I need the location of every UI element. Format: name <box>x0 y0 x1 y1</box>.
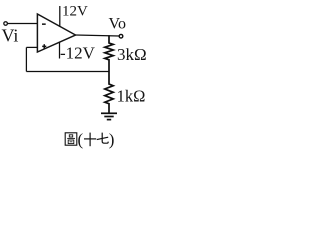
+12V supply stub <box>59 6 61 27</box>
wire Vi to inverting input <box>7 23 37 25</box>
svg-text:Vi: Vi <box>2 26 19 46</box>
svg-text:1kΩ: 1kΩ <box>117 86 146 105</box>
wire feedback horizontal to divider node <box>26 71 109 73</box>
resistor R2 1k ohm <box>105 72 113 114</box>
wire op-amp output <box>76 35 120 36</box>
op-amp U1 <box>37 14 75 52</box>
glyph shi (ten) <box>84 133 96 147</box>
glyph tu (figure) <box>65 133 77 145</box>
svg-text:Vo: Vo <box>109 16 127 33</box>
svg-text:12V: 12V <box>62 4 88 20</box>
glyph qi (seven) <box>97 133 108 144</box>
minus sign (inverting input) <box>42 23 46 25</box>
svg-text:): ) <box>109 130 115 149</box>
-12V supply stub <box>59 42 61 59</box>
resistor R1 3k ohm <box>105 35 113 71</box>
output terminal Vo <box>119 34 123 38</box>
plus sign (non-inverting input) <box>42 44 46 48</box>
wire feedback vertical <box>25 47 27 71</box>
input terminal Vi <box>4 22 8 26</box>
svg-text:3kΩ: 3kΩ <box>117 45 147 64</box>
svg-text:(: ( <box>78 130 84 149</box>
svg-text:-12V: -12V <box>60 43 96 62</box>
wire non-inverting input <box>26 46 37 48</box>
caption figure 17 <box>65 133 108 147</box>
ground <box>101 113 117 119</box>
